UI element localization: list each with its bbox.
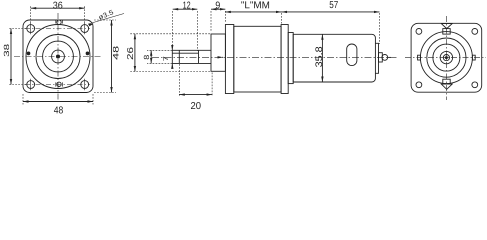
centerline [152,56,397,58]
rear bearing block [379,53,383,62]
svg-text:48: 48 [54,105,64,114]
svg-text:8: 8 [142,55,151,60]
south notch triangle [441,84,452,89]
north tab rect [443,29,450,34]
svg-text:48: 48 [111,45,120,60]
right side screw [86,52,89,55]
svg-text:38: 38 [2,44,11,57]
dim 38 left [8,29,26,85]
dim 12 [173,11,198,51]
north notch triangle [441,24,452,29]
hole centerline bottom [25,84,90,86]
hole BL [27,81,35,89]
shaft flat [172,52,198,54]
center dot [56,55,59,58]
hole TL [416,29,422,35]
svg-text:35.8: 35.8 [314,46,325,67]
dim 7 arrows [171,46,173,50]
bottom screw flank ticks [56,82,63,86]
dim 35.8 [321,34,323,82]
boss circle [440,51,452,63]
boss circle [52,50,65,63]
hole centerline top [25,28,90,30]
east tab [472,55,475,60]
center dot [445,57,447,59]
hole BR [472,82,478,88]
bottom center screw [57,82,61,86]
svg-text:"L"MM: "L"MM [241,0,270,11]
svg-text:26: 26 [125,47,135,60]
motor front flange [288,33,293,84]
centerline arrow at gearbox face [222,56,223,58]
south tab rect [443,79,450,84]
centerline horizontal [405,57,486,59]
rear shaft stub [388,56,391,58]
left side screw [27,52,30,55]
circle r21 [36,35,80,79]
dim 48 bottom [23,94,93,105]
endbell [375,43,378,73]
dim 57 [281,13,283,24]
leader phi3.5 [88,14,124,25]
flange square rear [411,23,482,92]
hole TL [27,25,35,33]
vent oval [347,44,357,66]
hole vertical ticks [31,23,85,91]
hole BL [416,82,422,88]
front boss [211,34,225,71]
hole TR [81,25,89,33]
dim 20 [179,64,212,97]
dim 8 [147,50,172,63]
west tab [418,55,421,60]
dim 36 top [31,6,85,23]
circle r14.5 [43,41,74,72]
top screw flank ticks [56,20,63,24]
gearbox rear ring [281,25,288,94]
svg-text:12: 12 [183,0,191,11]
dim 48 right [94,20,116,93]
output shaft [172,50,211,63]
dim 26 [129,34,210,72]
inner circle [433,44,460,71]
gearbox front ring [225,25,233,94]
motor can [293,34,375,82]
hole BR [81,81,89,89]
shaft circle [443,55,449,61]
rear bushing circle [382,55,388,61]
svg-text:57: 57 [329,0,338,11]
dim L MM [225,11,281,13]
main centerline horizontal [14,56,102,58]
gearbox body [234,26,281,92]
can circle [420,32,472,84]
centerline vertical [445,16,447,100]
svg-text:20: 20 [191,101,202,112]
hole TR [472,29,478,35]
svg-text:36: 36 [53,1,63,12]
svg-text:7: 7 [163,56,170,61]
flange square [23,20,93,93]
gearbox case circle [26,25,90,89]
endbell circle [427,38,466,77]
main centerline vertical [57,13,59,100]
top center screw [57,20,61,24]
dim 9 [211,11,225,32]
svg-text:9: 9 [215,0,220,11]
